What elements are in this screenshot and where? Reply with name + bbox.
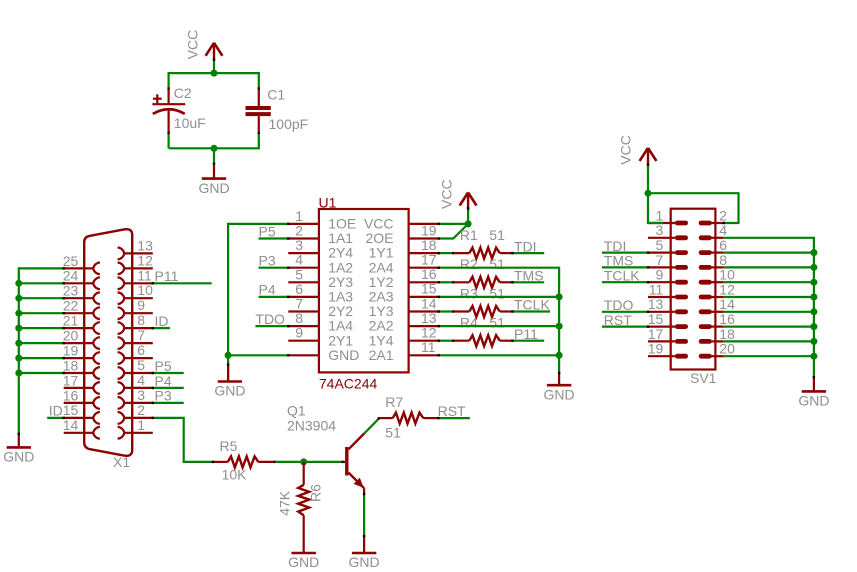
wire U1 VCC pin <box>439 223 468 225</box>
resistor R2 leads <box>453 281 469 283</box>
svg-text:14: 14 <box>421 295 437 311</box>
wire net TCLK at SV1 <box>602 281 648 283</box>
U1 left pin row 3 <box>288 237 353 261</box>
wire X1 pin 23 to bus <box>19 297 64 299</box>
wire X1 pin 21 to bus <box>19 327 64 329</box>
SV1 pin 20 <box>699 341 735 359</box>
svg-text:1A2: 1A2 <box>328 259 353 275</box>
svg-text:20: 20 <box>63 328 79 344</box>
X1 pin 10 <box>118 282 153 304</box>
svg-text:7: 7 <box>295 296 303 312</box>
U1 right pin row 7 <box>369 310 439 334</box>
U1 left pin row 9 <box>288 325 353 349</box>
svg-text:18: 18 <box>63 357 79 373</box>
svg-text:VCC: VCC <box>364 216 394 232</box>
U1 left pin row 6 <box>288 281 353 305</box>
ground pin U1 left <box>227 355 229 380</box>
resistor R7 <box>393 413 424 424</box>
wire X1 pin 18 to bus <box>19 372 64 374</box>
junction gnd bus <box>810 308 817 315</box>
X1 pin 14 <box>63 417 100 439</box>
resistor R2 <box>469 277 500 288</box>
U1 left pin row 2 <box>288 223 353 247</box>
wire net P3 at X1 pin 3 <box>153 402 184 404</box>
svg-text:GND: GND <box>544 386 575 402</box>
svg-text:14: 14 <box>719 296 735 312</box>
svg-text:1: 1 <box>295 208 303 224</box>
resistor R6 leads <box>303 462 305 485</box>
wire VCC to SV1 pin2 <box>648 193 739 223</box>
svg-text:GND: GND <box>288 554 319 570</box>
svg-text:51: 51 <box>385 424 401 440</box>
wire SV1 pin 16 to gnd bus <box>724 326 814 328</box>
svg-text:3: 3 <box>295 237 303 253</box>
junction gnd bus <box>810 338 817 345</box>
svg-text:VCC: VCC <box>185 30 201 60</box>
wire U1 pin to R1 <box>439 252 453 254</box>
X1 pin 19 <box>63 342 100 364</box>
svg-text:U1: U1 <box>319 194 337 210</box>
wire SV1 pin4 to gnd bus <box>724 238 814 377</box>
svg-text:2N3904: 2N3904 <box>287 418 336 434</box>
SV1 pin 3 <box>648 222 688 240</box>
wire U1 pin1/GND bus <box>228 224 288 355</box>
wire net P11 at X1 pin 11 <box>153 282 212 284</box>
svg-text:RST: RST <box>604 312 632 328</box>
svg-text:2: 2 <box>295 223 303 239</box>
U1 left pin row 1 <box>288 208 356 232</box>
wire net P11 <box>512 340 544 342</box>
junction top node <box>211 70 218 77</box>
junction gnd bus <box>556 293 563 300</box>
SV1 pin 4 <box>699 222 728 240</box>
svg-text:R4: R4 <box>460 315 478 331</box>
svg-text:15: 15 <box>648 311 664 327</box>
wire X1 pin 22 to bus <box>19 312 64 314</box>
svg-text:TDO: TDO <box>604 297 634 313</box>
SV1 pin 12 <box>699 281 735 299</box>
junction bus pin 22 <box>15 310 22 317</box>
X1 pin 2 <box>118 402 153 424</box>
svg-text:10: 10 <box>137 282 153 298</box>
svg-text:TDI: TDI <box>514 238 537 254</box>
svg-text:2Y1: 2Y1 <box>328 332 353 348</box>
capacitor C2 (polarized) <box>152 89 185 133</box>
svg-text:15: 15 <box>421 281 437 297</box>
svg-text:2: 2 <box>719 207 727 223</box>
svg-text:P3: P3 <box>155 388 172 404</box>
junction bottom node <box>211 145 218 152</box>
svg-text:1Y2: 1Y2 <box>369 274 394 290</box>
U1 left pin row 7 <box>288 296 353 320</box>
X1 pin 20 <box>63 328 100 350</box>
svg-text:2A2: 2A2 <box>369 318 394 334</box>
svg-text:8: 8 <box>295 310 303 326</box>
power VCC symbol (SV1) <box>640 148 657 165</box>
svg-text:VCC: VCC <box>439 179 455 209</box>
svg-text:TDI: TDI <box>604 238 627 254</box>
wire C2 bottom <box>168 133 170 149</box>
svg-text:P4: P4 <box>259 282 276 298</box>
wire X1 pin 19 to bus <box>19 357 64 359</box>
U1 left pin row 10 <box>288 347 359 363</box>
wire X1 pin 2 to R5 <box>153 418 213 462</box>
svg-text:TCLK: TCLK <box>604 267 640 283</box>
wire net TDO at U1 <box>255 325 288 327</box>
SV1 pin 11 <box>648 281 688 299</box>
junction U1 VCC <box>465 220 472 227</box>
wire SV1 pin 14 to gnd bus <box>724 311 814 313</box>
svg-text:Q1: Q1 <box>287 403 306 419</box>
ground pin (top-left) <box>213 164 215 177</box>
U1 left pin row 5 <box>288 266 353 290</box>
wire net TDI <box>512 252 544 254</box>
resistor R3 leads <box>453 310 469 312</box>
junction gnd bus <box>556 352 563 359</box>
SV1 pin 16 <box>699 311 735 329</box>
X1 pin 18 <box>63 357 100 379</box>
U1 right pin row 9 <box>369 339 439 363</box>
svg-text:19: 19 <box>63 342 79 358</box>
svg-text:12: 12 <box>719 281 735 297</box>
junction gnd bus <box>810 279 817 286</box>
svg-text:22: 22 <box>63 298 79 314</box>
svg-text:1A1: 1A1 <box>328 230 353 246</box>
SV1 pin 19 <box>648 341 688 359</box>
svg-text:1Y4: 1Y4 <box>369 332 394 348</box>
SV1 pin 14 <box>699 296 735 314</box>
resistor R5 leads <box>213 461 228 463</box>
X1 pin 25 <box>63 253 100 274</box>
wire U1 pin17 to gnd bus <box>439 268 559 373</box>
capacitor C1 <box>246 89 271 133</box>
SV1 pin 5 <box>648 237 688 255</box>
svg-text:GND: GND <box>214 383 245 399</box>
X1 pin 3 <box>118 387 153 409</box>
wire SV1 pin 10 to gnd bus <box>724 281 814 283</box>
X1 pin 9 <box>118 297 153 319</box>
wire VCC to node <box>213 59 215 73</box>
resistor R5 <box>228 456 258 467</box>
svg-text:2A4: 2A4 <box>369 259 394 275</box>
svg-text:VCC: VCC <box>617 135 633 165</box>
svg-text:47K: 47K <box>277 490 293 516</box>
junction VCC node <box>645 190 652 197</box>
SV1 pin 13 <box>648 296 688 314</box>
junction gnd bus <box>810 323 817 330</box>
svg-text:19: 19 <box>648 341 664 357</box>
svg-text:1OE: 1OE <box>328 216 356 232</box>
wire X1 pin 20 to bus <box>19 342 64 344</box>
X1 pin 22 <box>63 298 100 320</box>
SV1 pin 17 <box>648 326 688 344</box>
junction U1 gnd bus <box>225 352 232 359</box>
svg-text:4: 4 <box>295 252 303 268</box>
power VCC symbol (U1) <box>460 193 477 210</box>
wire Q1 emitter to GND <box>363 488 365 494</box>
SV1 pin 1 <box>648 207 688 225</box>
ground GND (R6) <box>288 553 319 570</box>
svg-text:11: 11 <box>421 339 436 355</box>
svg-text:P11: P11 <box>514 326 538 342</box>
U1 right pin row 5 <box>369 281 439 305</box>
svg-text:4: 4 <box>719 222 727 238</box>
wire Q1 collector to R7 <box>364 419 379 434</box>
svg-text:2A1: 2A1 <box>369 347 394 363</box>
wire net TDI at SV1 <box>602 252 648 254</box>
SV1 pin 6 <box>699 237 728 255</box>
svg-text:4: 4 <box>137 372 145 388</box>
svg-text:5: 5 <box>656 237 664 253</box>
svg-text:10: 10 <box>719 267 735 283</box>
svg-text:2Y4: 2Y4 <box>328 245 353 261</box>
wire U1 pin to R2 <box>439 281 453 283</box>
U1 right pin row 0 <box>364 216 439 232</box>
resistor R3 <box>469 306 500 317</box>
wire net TMS <box>512 281 544 283</box>
svg-text:16: 16 <box>63 387 79 403</box>
wire R5 to Q1 base <box>275 461 343 463</box>
wire X1 pin 24 to bus <box>19 282 64 284</box>
SV1 pin 18 <box>699 326 735 344</box>
svg-text:12: 12 <box>421 325 437 341</box>
U1 left pin row 8 <box>288 310 353 334</box>
svg-text:SV1: SV1 <box>690 370 717 386</box>
X1 pin 6 <box>118 342 153 364</box>
ground GND (X1 bus) <box>3 447 34 464</box>
junction bus pin 24 <box>15 280 22 287</box>
X1 pin 8 <box>118 312 153 334</box>
X1 pin 21 <box>63 313 100 335</box>
resistor R4 leads <box>453 340 469 342</box>
svg-text:21: 21 <box>63 313 79 329</box>
junction base node <box>300 458 307 465</box>
svg-text:100pF: 100pF <box>269 116 309 132</box>
SV1 pin 9 <box>648 267 688 285</box>
svg-text:C1: C1 <box>267 86 285 102</box>
junction gnd bus <box>810 264 817 271</box>
IC U1 box <box>319 209 409 372</box>
svg-text:18: 18 <box>719 326 735 342</box>
U1 right pin row 4 <box>369 266 439 290</box>
svg-text:8: 8 <box>719 252 727 268</box>
svg-text:R3: R3 <box>460 285 478 301</box>
svg-text:2Y2: 2Y2 <box>328 303 353 319</box>
svg-text:P11: P11 <box>155 268 179 284</box>
X1 pin 12 <box>118 252 153 274</box>
wire VCC to SV1 pin1 <box>648 165 663 223</box>
wire to GND <box>213 148 215 164</box>
X1 pin 23 <box>63 283 100 305</box>
svg-text:51: 51 <box>489 227 505 243</box>
wire SV1 pin 8 to gnd bus <box>724 266 814 268</box>
wire SV1 pin 18 to gnd bus <box>724 340 814 342</box>
resistor R7 leads <box>379 417 393 419</box>
U1 right pin row 2 <box>369 237 439 261</box>
svg-text:6: 6 <box>295 281 303 297</box>
svg-text:1Y1: 1Y1 <box>369 245 394 261</box>
wire U1 pin to gnd bus <box>439 354 559 356</box>
svg-text:17: 17 <box>421 252 437 268</box>
svg-text:51: 51 <box>489 285 505 301</box>
X1 pin 16 <box>63 387 100 409</box>
svg-text:X1: X1 <box>113 454 130 470</box>
U1 right pin row 8 <box>369 325 439 349</box>
svg-text:1Y3: 1Y3 <box>369 303 394 319</box>
wire net RST at SV1 <box>602 326 648 328</box>
junction bus pin 23 <box>15 295 22 302</box>
ground GND (top-left) <box>198 179 229 196</box>
svg-text:13: 13 <box>137 237 153 253</box>
svg-text:51: 51 <box>489 315 505 331</box>
junction bus pin 18 <box>15 370 22 377</box>
wire bottom node <box>169 133 259 149</box>
resistor R1 leads <box>453 252 469 254</box>
svg-text:24: 24 <box>63 268 79 284</box>
connector SV1 box <box>671 209 716 370</box>
resistor R6 <box>298 485 309 516</box>
svg-text:P5: P5 <box>155 358 172 374</box>
svg-text:9: 9 <box>656 267 664 283</box>
svg-text:20: 20 <box>719 341 735 357</box>
SV1 pin 10 <box>699 267 735 285</box>
wire U1 pin to gnd bus <box>439 325 559 327</box>
X1 pin 11 <box>118 267 153 289</box>
svg-text:10uF: 10uF <box>174 115 206 131</box>
svg-text:3: 3 <box>656 222 664 238</box>
svg-text:1: 1 <box>137 417 145 433</box>
svg-text:2OE: 2OE <box>365 230 393 246</box>
svg-text:1: 1 <box>656 207 664 223</box>
svg-text:P3: P3 <box>259 253 276 269</box>
svg-text:RST: RST <box>438 403 466 419</box>
wire U1 pin to R4 <box>439 340 453 342</box>
svg-text:TMS: TMS <box>604 253 634 269</box>
ground GND (Q1 emitter) <box>349 553 380 570</box>
wire net TDO at SV1 <box>602 311 648 313</box>
svg-text:23: 23 <box>63 283 79 299</box>
U1 right pin row 1 <box>365 222 438 246</box>
svg-text:C2: C2 <box>174 85 192 101</box>
resistor R4 <box>469 335 500 346</box>
X1 pin 15 <box>63 402 100 424</box>
svg-text:GND: GND <box>349 554 380 570</box>
U1 right pin row 6 <box>369 295 439 319</box>
svg-text:16: 16 <box>719 311 735 327</box>
connector X1 outline (DB25) <box>84 229 132 456</box>
svg-text:13: 13 <box>648 296 664 312</box>
svg-text:2A3: 2A3 <box>369 289 394 305</box>
X1 pin 24 <box>63 268 100 290</box>
wire U1 pin to R3 <box>439 310 453 312</box>
transistor Q1 2N3904 <box>343 433 365 488</box>
X1 pin 17 <box>63 372 100 394</box>
X1 pin 4 <box>118 372 153 394</box>
SV1 pin 8 <box>699 252 728 270</box>
svg-text:2: 2 <box>137 402 145 418</box>
svg-text:9: 9 <box>137 297 145 313</box>
svg-text:18: 18 <box>421 237 437 253</box>
wire net ID at X1 pin 15 <box>47 417 64 419</box>
wire net P4 at X1 pin 4 <box>153 387 184 389</box>
svg-text:ID: ID <box>155 313 169 329</box>
svg-text:15: 15 <box>63 402 79 418</box>
svg-text:10K: 10K <box>222 467 248 483</box>
wire net P3 at U1 <box>259 267 289 269</box>
svg-text:1A4: 1A4 <box>328 318 353 334</box>
svg-text:GND: GND <box>328 347 359 363</box>
ground GND (SV1) <box>798 391 829 408</box>
wire net ID at X1 pin 8 <box>153 327 170 329</box>
svg-text:74AC244: 74AC244 <box>319 375 378 391</box>
svg-text:R1: R1 <box>460 227 478 243</box>
svg-text:2Y3: 2Y3 <box>328 274 353 290</box>
svg-text:25: 25 <box>63 253 79 269</box>
svg-text:P5: P5 <box>259 223 276 239</box>
SV1 pin 15 <box>648 311 688 329</box>
svg-text:13: 13 <box>421 310 437 326</box>
svg-text:17: 17 <box>63 372 79 388</box>
svg-text:5: 5 <box>137 357 145 373</box>
X1 pin 13 <box>118 237 153 259</box>
svg-text:R7: R7 <box>385 394 403 410</box>
power VCC symbol (top-left) <box>206 43 223 60</box>
wire X1 ground bus <box>19 268 64 434</box>
SV1 pin 2 <box>699 207 728 225</box>
svg-text:ID: ID <box>49 403 63 419</box>
svg-text:6: 6 <box>137 342 145 358</box>
svg-text:TMS: TMS <box>514 268 544 284</box>
wire U1 pin19 to VCC <box>439 224 468 239</box>
svg-text:8: 8 <box>137 312 145 328</box>
svg-text:TCLK: TCLK <box>514 297 550 313</box>
svg-text:11: 11 <box>649 281 664 297</box>
svg-text:P4: P4 <box>155 373 172 389</box>
SV1 pin 7 <box>648 252 688 270</box>
svg-text:1A3: 1A3 <box>328 289 353 305</box>
svg-text:R2: R2 <box>460 256 478 272</box>
svg-text:GND: GND <box>798 393 829 409</box>
junction gnd bus <box>556 323 563 330</box>
wire to VCC arrow <box>467 209 469 224</box>
ground GND (U1 right) <box>544 385 575 402</box>
svg-text:19: 19 <box>421 222 437 238</box>
svg-text:GND: GND <box>3 449 34 465</box>
wire top node <box>169 73 259 89</box>
ground pin X1 <box>18 434 20 446</box>
junction gnd bus <box>810 294 817 301</box>
svg-text:5: 5 <box>295 266 303 282</box>
svg-text:7: 7 <box>137 327 145 343</box>
ground pin SV1 <box>813 377 815 390</box>
svg-text:GND: GND <box>198 180 229 196</box>
ground GND (U1 left) <box>214 382 245 399</box>
svg-text:R5: R5 <box>220 438 238 454</box>
junction gnd bus <box>810 249 817 256</box>
svg-text:17: 17 <box>648 326 664 342</box>
svg-text:R6: R6 <box>307 484 323 502</box>
U1 left pin row 4 <box>288 252 353 276</box>
svg-text:51: 51 <box>489 256 505 272</box>
svg-text:11: 11 <box>137 267 152 283</box>
ground pin U1 right <box>558 373 560 384</box>
junction gnd bus <box>810 353 817 360</box>
wire net P4 at U1 <box>259 296 289 298</box>
junction bus pin 21 <box>15 325 22 332</box>
wire net P5 at U1 <box>259 237 289 239</box>
junction bus pin 20 <box>15 340 22 347</box>
wire net TCLK <box>512 310 550 312</box>
